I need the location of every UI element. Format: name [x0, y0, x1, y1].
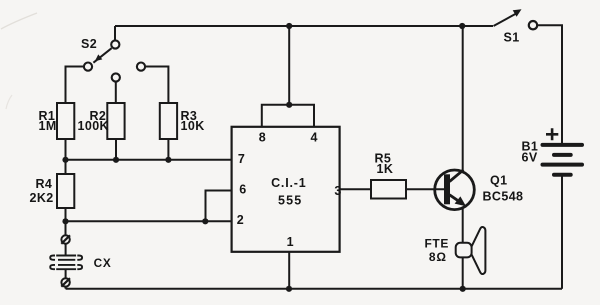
svg-text:100K: 100K: [78, 119, 109, 133]
wire top rail: [115, 25, 493, 27]
wire R4 top lead: [65, 160, 67, 174]
svg-text:10K: 10K: [181, 119, 205, 133]
wire S2 pos2 to R2: [115, 81, 117, 103]
node bracket: [286, 102, 292, 108]
wire S2 pos3 to R3: [145, 67, 169, 104]
wire IC top bracket: [262, 105, 314, 127]
node emitter-rail: [460, 286, 466, 292]
node pin1-rail: [286, 286, 292, 292]
resistor R2: [107, 103, 124, 139]
wire S1 to battery: [537, 25, 562, 144]
switch S2: [84, 40, 145, 81]
svg-text:7: 7: [238, 152, 245, 166]
terminal CX top: [61, 235, 70, 244]
svg-text:555: 555: [278, 193, 302, 207]
node supply-rail: [286, 23, 292, 29]
svg-text:1M: 1M: [39, 119, 57, 133]
S2 position 1 circle: [84, 63, 92, 71]
S2 common contact circle: [111, 40, 119, 48]
wire S2 pos1 to R1: [66, 67, 85, 104]
svg-text:S1: S1: [504, 31, 520, 45]
svg-text:C.I.-1: C.I.-1: [271, 176, 306, 190]
label battery plus: [546, 128, 558, 140]
svg-text:Q1: Q1: [490, 174, 507, 188]
svg-text:R4: R4: [36, 177, 53, 191]
svg-text:3: 3: [334, 184, 341, 198]
svg-text:BC548: BC548: [483, 190, 524, 204]
wire R4 bottom lead: [65, 208, 67, 221]
svg-text:S2: S2: [81, 37, 97, 51]
svg-text:6: 6: [239, 182, 246, 196]
svg-text:2: 2: [237, 213, 244, 227]
wire bus to pin 7: [66, 159, 232, 161]
svg-text:8Ω: 8Ω: [429, 250, 447, 264]
node collector-rail: [459, 23, 465, 29]
S2 position 2 circle: [112, 73, 120, 81]
node R3-bus: [165, 157, 171, 163]
S2 position 3 circle: [137, 63, 145, 71]
wire pin 2 line: [66, 220, 232, 222]
wire IC supply feed: [288, 26, 290, 105]
svg-text:FTE: FTE: [425, 236, 449, 250]
wire S2 feed drop: [114, 26, 116, 41]
resistor R1: [57, 103, 74, 139]
wire bottom rail: [66, 288, 562, 290]
speaker FTE: [456, 227, 486, 274]
wire pin 1 to rail: [288, 252, 290, 289]
node R4-pin2: [62, 218, 68, 224]
wire R5 to base: [406, 188, 445, 190]
svg-text:6V: 6V: [522, 151, 538, 165]
wire node to CX terminal: [65, 221, 67, 235]
wire battery to rail: [561, 176, 563, 289]
scan smudge top-left: [1, 13, 37, 29]
svg-text:8: 8: [259, 131, 266, 145]
resistor R4: [57, 174, 74, 208]
wire R1 bottom lead: [65, 139, 67, 160]
switch S1: [494, 9, 538, 29]
wire pin 3 stub: [340, 188, 371, 190]
resistor R3: [160, 103, 177, 139]
wire R3 bottom lead: [167, 139, 169, 160]
wire emitter down: [462, 207, 464, 289]
wire CX to bottom terminal: [65, 269, 67, 278]
capacitor CX: [50, 256, 82, 270]
battery B1: [543, 145, 583, 175]
node R1-bus: [62, 157, 68, 163]
node R2-bus: [113, 157, 119, 163]
svg-text:1K: 1K: [377, 162, 394, 176]
terminal CX bottom: [61, 278, 70, 287]
svg-text:2K2: 2K2: [30, 191, 54, 205]
transistor Q1: [435, 170, 475, 210]
wire terminal to CX: [65, 244, 67, 256]
svg-text:CX: CX: [94, 256, 112, 270]
IC U1 C.I.-1 555 box: [232, 127, 340, 252]
resistor R5: [371, 180, 406, 199]
node pin6-pin2: [202, 218, 208, 224]
S2 lever with arrow: [93, 48, 111, 63]
wire collector to rail: [462, 26, 464, 171]
wire terminal to rail: [65, 287, 67, 289]
svg-text:4: 4: [311, 131, 318, 145]
wire pin 6 branch: [206, 191, 232, 222]
svg-text:1: 1: [287, 235, 294, 249]
wire R2 bottom lead: [115, 139, 117, 160]
